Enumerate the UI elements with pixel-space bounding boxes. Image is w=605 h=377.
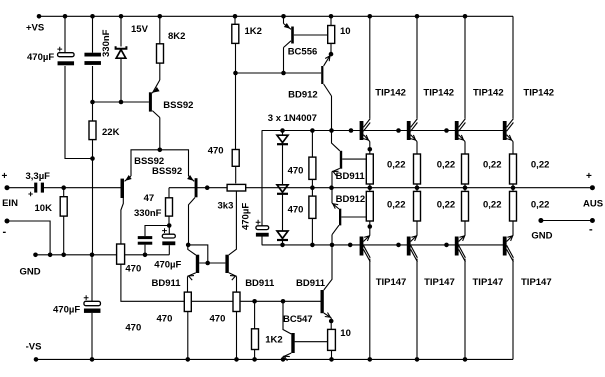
svg-text:0,22: 0,22 (483, 160, 502, 171)
junction bottom rail 3 (234, 357, 239, 362)
wire 10R to BD912 emitter node (330, 43, 332, 54)
wire col3 0R22 junction (464, 184, 466, 191)
svg-text:BD911: BD911 (296, 278, 326, 289)
junction y73 b (281, 71, 286, 76)
junction bottom rail 5 (281, 357, 286, 362)
svg-text:470: 470 (125, 264, 141, 275)
junction top rail 10 (463, 14, 468, 19)
svg-text:3,3µF: 3,3µF (26, 171, 51, 182)
wire col1 TIP147 emitter (369, 221, 371, 235)
svg-text:3k3: 3k3 (218, 201, 234, 212)
wire zener col upper (120, 16, 122, 46)
transistor Q5 BD911 upper clamp (340, 151, 342, 169)
junction y102 b (119, 100, 124, 105)
wire lower base rail (262, 244, 506, 246)
wire mirror base link (199, 262, 225, 264)
junction upper rail 5 (444, 128, 449, 133)
junction y102 a (90, 100, 95, 105)
wire col3 collector bottom (464, 259, 466, 360)
junction bottom rail 8 (415, 357, 420, 362)
junction mirror base (205, 261, 210, 266)
transistor TIP147 col1 (360, 237, 364, 256)
resistor 0R22 lower col3 (462, 191, 469, 221)
wire T2 drain (189, 198, 196, 245)
transistor TIP142 col1 (360, 121, 364, 140)
junction lower rail 0 (280, 243, 285, 248)
terminal input - (5, 219, 10, 224)
wire BD912-drv base-strich (341, 216, 366, 218)
wire mirror left emitter (187, 276, 189, 292)
resistor 1K2 bottom (252, 329, 259, 350)
wire col2 collector top (416, 16, 418, 118)
junction lower rail 5 (444, 243, 449, 248)
wire D1-D2 link (282, 145, 284, 185)
resistor 0R22 upper col3 (462, 154, 469, 184)
svg-text:GND: GND (20, 266, 41, 277)
transistor T1 BSS92 diff left (121, 179, 125, 198)
diode D1 1N4007 (277, 135, 288, 142)
junction top rail 8 (368, 14, 373, 19)
wire GND rail (36, 254, 170, 256)
junction bottom rail 7 (368, 357, 373, 362)
wire input line (C1 to Q-T1 base) (44, 187, 121, 189)
resistor 470 mirror right (233, 292, 240, 311)
wire zener node line y102 (93, 101, 149, 103)
wire zener col lower (120, 58, 122, 102)
svg-text:0,22: 0,22 (387, 160, 406, 171)
svg-text:BD912: BD912 (288, 90, 318, 101)
svg-text:+: + (2, 171, 8, 182)
junction 22K node (90, 156, 95, 161)
svg-text:TIP147: TIP147 (473, 277, 504, 288)
wire BD912-top collector (331, 96, 333, 131)
diode D2 1N4007 (277, 185, 288, 192)
svg-text:BD912: BD912 (336, 194, 366, 205)
resistor 0R22 upper col2 (414, 154, 421, 184)
svg-text:0,22: 0,22 (483, 200, 502, 211)
wire col2 TIP142 emitter (416, 142, 418, 155)
resistor 470 VAS (232, 150, 239, 167)
junction y73 a (233, 71, 238, 76)
junction top rail 3 (119, 14, 124, 19)
wire col1 TIP142 emitter (369, 142, 371, 155)
resistor 3k3 (227, 184, 246, 191)
svg-text:BD911: BD911 (245, 278, 275, 289)
svg-text:BD911: BD911 (152, 278, 182, 289)
svg-text:TIP142: TIP142 (473, 87, 504, 98)
junction output line 0 (310, 185, 315, 190)
junction y301 b (281, 299, 286, 304)
transistor TIP147 col3 (455, 237, 459, 256)
svg-text:470: 470 (288, 205, 304, 216)
svg-text:GND: GND (531, 231, 552, 242)
svg-text:TIP147: TIP147 (521, 277, 552, 288)
transistor Q1 BSS92 current source (149, 92, 152, 111)
wire col3 TIP147 emitter (464, 221, 466, 235)
resistor 0R22 lower col1 (366, 191, 373, 221)
wire 8K2 col lower (159, 63, 161, 80)
wire limiter collector col (324, 245, 332, 290)
junction col1 emitter top (368, 147, 373, 152)
capacitor 3,3uF input (34, 183, 37, 193)
junction top rail 1 (63, 14, 68, 19)
wire +VS top rail (39, 15, 513, 17)
svg-text:3 x 1N4007: 3 x 1N4007 (268, 113, 317, 124)
svg-text:TIP142: TIP142 (423, 87, 454, 98)
svg-text:470µF: 470µF (53, 304, 80, 315)
junction top rail 7 (329, 14, 334, 19)
svg-text:22K: 22K (102, 127, 120, 138)
svg-text:BD911: BD911 (336, 171, 366, 182)
wire limiter base line y301 (121, 264, 321, 301)
junction bottom rail 0 (34, 357, 39, 362)
wire 470a to sig (311, 179, 313, 187)
transistor Q7 BD911 mirror diode (196, 255, 199, 273)
junction T2 gate (205, 185, 210, 190)
capacitor 330nF +VS (84, 53, 101, 57)
wire 470b to sig (311, 188, 313, 196)
wire BC547 base (295, 341, 328, 343)
svg-text:0,22: 0,22 (531, 200, 550, 211)
svg-text:TIP142: TIP142 (375, 87, 406, 98)
junction upper rail 3 (349, 128, 354, 133)
wire mirror collector riser (229, 190, 237, 255)
wire col4 collector top (512, 16, 514, 118)
wire T1 drain (121, 198, 123, 244)
wire 470uF main bottom (91, 313, 93, 360)
wire col1 collector top (369, 16, 371, 118)
svg-text:470: 470 (210, 313, 226, 324)
capacitor 470uF +VS (58, 53, 75, 57)
transistor Q4 BD912 (VAS) (321, 66, 323, 84)
junction bottom rail 1 (90, 357, 95, 362)
wire 10K top (63, 188, 65, 197)
svg-text:330nF: 330nF (101, 29, 112, 57)
wire diff tail (131, 150, 189, 176)
junction lower rail 1 (310, 243, 315, 248)
capacitor 470uF GND (84, 301, 101, 305)
diode D3 1N4007 (277, 231, 288, 238)
svg-text:-: - (589, 224, 593, 236)
junction top rail 6 (281, 14, 286, 19)
resistor 470 bias lower (309, 196, 316, 218)
transistor Q3 BC556 (291, 27, 294, 44)
wire 470uF-nfb top (168, 226, 170, 235)
wire BD911-lim emitter (330, 318, 332, 330)
wire 470uF main top (91, 255, 93, 301)
wire col3 collector top (464, 16, 466, 118)
wire 470 to 3k3 node (235, 166, 237, 183)
wire - input terminal (7, 221, 50, 255)
svg-text:AUS: AUS (583, 199, 603, 210)
transistor Q9 BD911 limiter (321, 290, 324, 313)
junction gnd rail 3 (90, 253, 95, 258)
wire BC556 emitter col (283, 16, 285, 23)
resistor 8K2 (157, 44, 164, 63)
transistor Q10 BC547 (291, 333, 294, 353)
wire input line (+ terminal to C1) (7, 187, 34, 189)
wire D1 top stub (282, 131, 284, 136)
wire col1 collector bottom (369, 259, 371, 360)
junction bottom rail 2 (186, 357, 191, 362)
wire col4 TIP142 emitter (512, 142, 514, 155)
svg-text:-VS: -VS (26, 342, 42, 353)
junction gnd rail 1 (48, 253, 53, 258)
svg-text:470: 470 (157, 313, 173, 324)
svg-text:TIP142: TIP142 (523, 87, 554, 98)
svg-text:10K: 10K (35, 203, 53, 214)
junction output line 4 (463, 185, 468, 190)
wire output/feedback line (169, 187, 592, 189)
resistor 10R top (328, 26, 335, 44)
svg-text:470µF: 470µF (154, 259, 181, 270)
wire col4 TIP147 emitter (512, 221, 514, 235)
junction lower rail 4 (396, 243, 401, 248)
svg-text:-: - (3, 226, 7, 238)
wire driver emitter junction col (331, 172, 333, 204)
junction lower rail 2 (330, 243, 335, 248)
junction gnd rail 2 (61, 253, 66, 258)
transistor TIP142 col4 (503, 121, 507, 140)
junction diff tail (158, 148, 163, 153)
wire D2-D3 link (282, 194, 284, 231)
junction output line 3 (415, 185, 420, 190)
svg-text:1K2: 1K2 (245, 26, 262, 37)
resistor 0R22 lower col2 (414, 191, 421, 221)
wire 47R top (168, 188, 170, 198)
junction mirror in (186, 243, 191, 248)
junction gnd rail 4 (143, 253, 148, 258)
svg-text:EIN: EIN (2, 198, 18, 209)
resistor 0R22 upper col4 (510, 154, 517, 184)
resistor 1K2 top (232, 24, 239, 43)
wire 470a top stub (311, 131, 313, 158)
terminal AUS gnd left (538, 218, 543, 223)
svg-text:TIP147: TIP147 (376, 277, 407, 288)
wire 1K2 top stub (234, 16, 236, 24)
terminal AUS + (590, 185, 595, 190)
resistor 470 T1 drain (117, 244, 125, 264)
zener diode 15V (116, 50, 126, 59)
svg-text:470µF: 470µF (27, 52, 54, 63)
wire 10R top stub (330, 16, 332, 25)
wire 8K2 col upper (159, 16, 161, 44)
junction input node (61, 185, 66, 190)
wire bias box left col lower (261, 236, 263, 245)
svg-text:470µF: 470µF (241, 203, 252, 230)
transistor Q6 BD912 lower clamp (339, 209, 341, 226)
junction output line 5 (511, 185, 516, 190)
wire 330nF top col (92, 16, 94, 52)
junction col1 emitter bottom (368, 224, 373, 229)
wire 1K2 to 470 (through y73 node) (235, 43, 237, 149)
svg-text:0,22: 0,22 (387, 200, 406, 211)
transistor TIP142 col2 (407, 121, 411, 140)
junction upper rail 4 (396, 128, 401, 133)
wire upper base rail (262, 130, 506, 132)
wire cap node left (145, 226, 169, 237)
terminal input + (5, 185, 10, 190)
wire D3 to lower rail (282, 240, 284, 245)
junction upper rail 2 (329, 128, 334, 133)
svg-text:0,22: 0,22 (437, 160, 456, 171)
wire CS collector (159, 118, 161, 150)
junction upper rail 1 (310, 128, 315, 133)
junction top rail 0 (37, 14, 42, 19)
wire BD912 upper base line y73 (236, 72, 322, 74)
svg-text:BSS92: BSS92 (152, 166, 182, 177)
junction 10R-BD912 (329, 52, 334, 57)
svg-text:0,22: 0,22 (531, 160, 550, 171)
wire 470uF-nfb bottom (168, 245, 170, 255)
wire -VS bottom rail (36, 358, 513, 360)
svg-text:+: + (586, 171, 592, 182)
junction output line 2 (368, 185, 373, 190)
wire 1K2b top (254, 301, 256, 329)
resistor 0R22 lower col4 (510, 191, 517, 221)
wire col4 0R22 junction (512, 184, 514, 191)
wire 1K2b bottom (254, 350, 256, 360)
resistor 10K (60, 197, 67, 216)
transistor T2 BSS92 diff right (195, 178, 198, 197)
svg-text:470: 470 (208, 145, 224, 156)
svg-text:47: 47 (144, 193, 155, 204)
resistor 470 bias upper (309, 157, 316, 179)
resistor 0R22 upper col1 (366, 154, 373, 184)
wire bias box left col upper (261, 131, 263, 227)
wire col4 collector bottom (512, 259, 514, 360)
junction bottom rail 4 (252, 357, 257, 362)
junction top rail 5 (233, 14, 238, 19)
wire mirror right to rail (236, 312, 238, 360)
wire AUS gnd stub (541, 220, 593, 222)
svg-text:BC547: BC547 (283, 314, 313, 325)
resistor 22K (89, 121, 96, 140)
svg-text:10: 10 (340, 26, 351, 37)
resistor 47 (166, 198, 173, 216)
wire BC556 collector col (283, 48, 285, 74)
transistor TIP147 col2 (407, 237, 411, 256)
wire 470uF return to 22K node (65, 66, 93, 159)
junction top rail 4 (158, 14, 163, 19)
wire mirror diode loop (188, 245, 208, 263)
wire 22K column (92, 66, 94, 255)
junction lower rail 3 (348, 243, 353, 248)
svg-text:BC556: BC556 (288, 46, 318, 57)
svg-text:TIP147: TIP147 (424, 277, 455, 288)
wire BD911-lim base-strich (342, 158, 366, 160)
wire 470uF top col (64, 16, 66, 52)
svg-text:+VS: +VS (26, 22, 44, 33)
wire mirror right emitter (236, 276, 238, 292)
wire col2 collector bottom (416, 259, 418, 360)
transistor TIP142 col3 (455, 121, 459, 140)
junction bottom rail 9 (463, 357, 468, 362)
svg-text:8K2: 8K2 (168, 31, 185, 42)
svg-text:0,22: 0,22 (437, 200, 456, 211)
junction bottom rail 6 (329, 357, 334, 362)
wire col2 0R22 junction (416, 184, 418, 191)
svg-text:BSS92: BSS92 (163, 100, 193, 111)
junction output line 1 (329, 185, 334, 190)
resistor 10R bottom (328, 329, 336, 350)
junction y301 a (252, 299, 257, 304)
wire mirror left to rail (187, 312, 189, 360)
junction upper rail 0 (280, 128, 285, 133)
wire 470b to lower rail (311, 218, 313, 245)
wire 10K bottom (63, 216, 65, 255)
svg-text:1K2: 1K2 (265, 335, 282, 346)
junction 10R bottom (329, 319, 334, 324)
svg-text:10: 10 (340, 328, 351, 339)
capacitor 470uF NFB (162, 234, 175, 238)
svg-text:15V: 15V (131, 24, 149, 35)
junction gnd rail 0 (33, 253, 38, 258)
wire 10R-bot to rail (331, 350, 333, 359)
junction top rail 9 (415, 14, 420, 19)
wire BD911-drv collector riser (332, 131, 340, 151)
junction NFB caps (167, 223, 172, 228)
svg-text:470: 470 (125, 322, 141, 333)
svg-text:330nF: 330nF (134, 208, 162, 219)
transistor TIP147 col4 (503, 237, 507, 256)
wire 330nF-nfb bottom (144, 245, 146, 255)
terminal AUS gnd right (590, 218, 595, 223)
wire BD912-drv collector drop (331, 235, 333, 245)
resistor 470 mirror left (184, 292, 191, 311)
svg-text:470: 470 (288, 165, 304, 176)
wire col2 TIP147 emitter (416, 221, 418, 235)
capacitor 470uF bias (256, 226, 269, 230)
wire col1 0R22 junction (369, 184, 371, 191)
wire BC547 collector (283, 301, 291, 334)
wire col3 TIP142 emitter (464, 142, 466, 155)
capacitor 330nF NFB (138, 236, 153, 239)
wire 47R to cap node (168, 216, 170, 225)
junction top rail 2 (90, 14, 95, 19)
transistor Q8 BD911 mirror out (225, 255, 228, 273)
